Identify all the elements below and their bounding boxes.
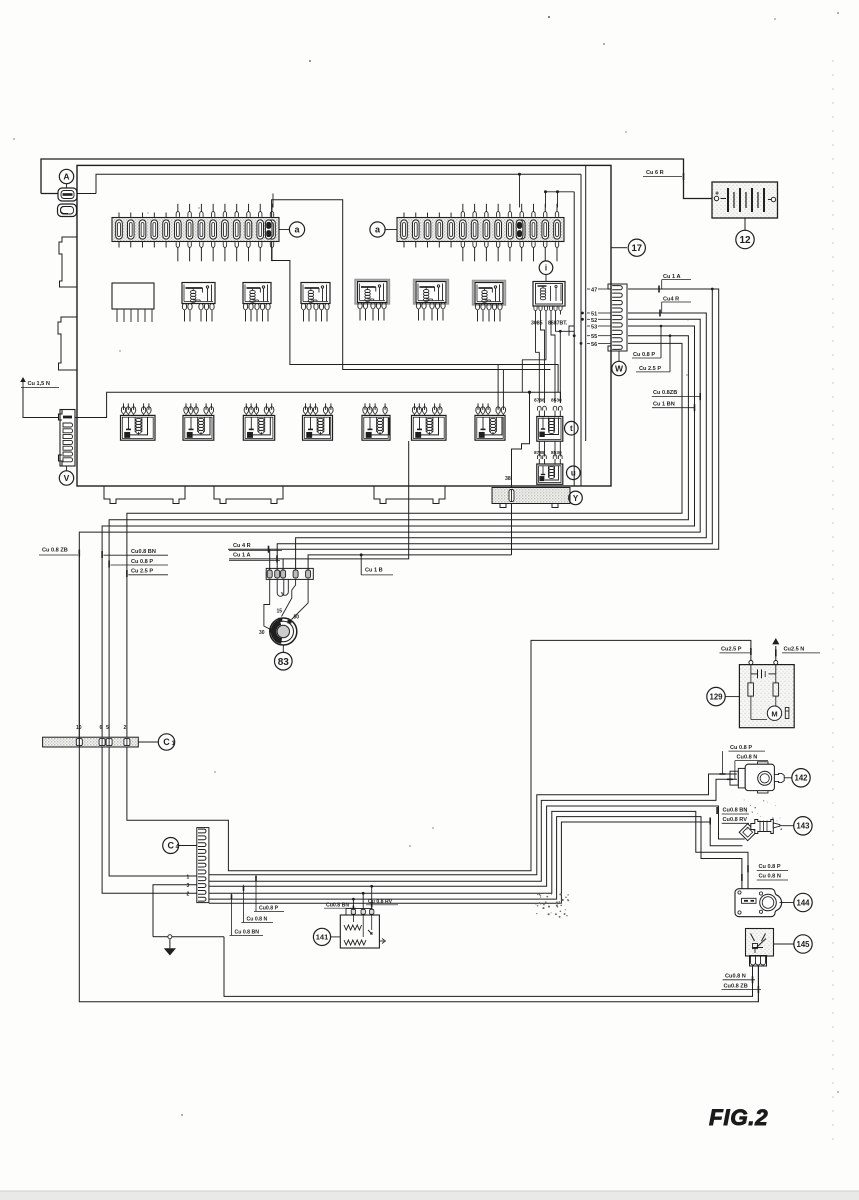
leader 142 [784, 777, 792, 779]
svg-text:50: 50 [294, 615, 300, 621]
svg-text:15: 15 [277, 609, 283, 615]
ref circle 17 [628, 239, 645, 256]
svg-text:38: 38 [505, 476, 511, 482]
svg-text:Cu 1 B: Cu 1 B [365, 568, 383, 574]
wire ground line to bottom bus [224, 937, 753, 997]
wire ZB left vertical to bottom bus [79, 555, 758, 1002]
relay i [533, 282, 565, 307]
inner vertical 586 [585, 165, 587, 441]
svg-text:t: t [570, 424, 573, 433]
wire dark fuse bottom loop [272, 241, 558, 392]
svg-text:Cu0.8 N: Cu0.8 N [737, 754, 758, 760]
relay t pins [538, 406, 542, 410]
component 144 (flasher unit) [735, 889, 782, 917]
relay c6 [412, 415, 447, 440]
svg-text:Cu0.8 BN: Cu0.8 BN [131, 549, 156, 555]
wires 145 down [752, 966, 754, 996]
wire outer corner to connector A [41, 193, 58, 195]
wire left strip pin up [272, 194, 274, 208]
relay c1 [121, 415, 156, 440]
component 141 (ballast resistor) [340, 909, 385, 949]
relay b1 [182, 283, 215, 304]
svg-text:8530: 8530 [551, 398, 562, 404]
box bottom tab 1 [104, 486, 185, 504]
svg-text:17: 17 [632, 243, 643, 254]
wires relay i to relay t [536, 315, 540, 404]
svg-text:W: W [615, 364, 624, 374]
relay b4 [355, 280, 389, 304]
ref circle Y [569, 491, 583, 505]
svg-text:30: 30 [259, 630, 265, 636]
svg-text:Cu0.8 N: Cu0.8 N [725, 974, 746, 980]
component 129 (wiper motor unit) [739, 661, 794, 728]
ref circle W [612, 361, 626, 375]
left edge connector bracket 1 [59, 237, 77, 287]
svg-text:5: 5 [106, 725, 109, 731]
wire pin 56 -> C1 pin 2 [127, 343, 682, 737]
wire C1-6 to C4 pin2 [102, 747, 197, 893]
svg-text:129: 129 [709, 692, 723, 701]
dark fuse left strip [265, 220, 272, 239]
svg-text:i: i [545, 264, 547, 273]
svg-text:2: 2 [124, 725, 127, 731]
svg-text:141: 141 [316, 933, 329, 942]
svg-text:C: C [163, 737, 170, 747]
leader 144 [780, 902, 795, 904]
wires relay c7 pins up to interior lines [497, 365, 499, 404]
connector A (dark) [58, 188, 77, 201]
component block (plain) [112, 283, 154, 309]
svg-text:6: 6 [100, 725, 103, 731]
relay b2 [243, 283, 271, 304]
svg-text:Cu 0.8ZB: Cu 0.8ZB [653, 390, 677, 396]
svg-text:Cu 1,5 N: Cu 1,5 N [28, 381, 50, 387]
label Cu0.8 P hanging [255, 875, 257, 912]
relay c5 [362, 415, 390, 440]
ref circle V [59, 471, 73, 485]
leader i [545, 275, 547, 282]
snake wire dark fuse to relay area [272, 200, 551, 370]
ref circle a (right strip) [370, 222, 385, 237]
wire dark fuse up to top line [519, 174, 521, 207]
svg-text:56: 56 [591, 342, 597, 348]
svg-text:143: 143 [796, 822, 810, 831]
label Cu 0.8 BN hanging [231, 893, 233, 935]
ref circle C1 [158, 734, 174, 750]
bundle wire C4-2 to 144 Cu 0.8 P [209, 811, 748, 893]
fuse unit box 17 outline [77, 165, 611, 486]
bundle wire C4-3 to 143 Cu0.8 BN [209, 806, 745, 886]
wire Cu 2.5 N with arrow [775, 646, 777, 661]
wire slot1 drop [269, 549, 271, 570]
bundle wire to 144 Cu 0.8 N [209, 817, 742, 900]
svg-text:12: 12 [739, 235, 751, 246]
ignition switch wiring below [264, 579, 271, 630]
svg-text:Cu2.5 N: Cu2.5 N [784, 647, 805, 653]
ref circle u [567, 466, 581, 480]
svg-text:52: 52 [591, 318, 597, 324]
wire pin 53 -> C1 pin 6 [102, 326, 694, 737]
relay t [537, 417, 563, 442]
bottom inner box top edge [75, 392, 561, 417]
ref circle t [565, 421, 579, 435]
svg-text:Cu 0.8 P: Cu 0.8 P [730, 745, 752, 751]
svg-text:Cu 1 BN: Cu 1 BN [653, 402, 675, 408]
svg-text:Cu 0.8 N: Cu 0.8 N [247, 917, 268, 923]
leader battery to ref 12 [744, 218, 746, 231]
ground node and symbol [168, 935, 172, 939]
ignition connector strip [266, 568, 313, 579]
svg-text:47: 47 [591, 288, 597, 294]
dark fuse right strip [516, 220, 523, 239]
wire Y38 to slot5 [308, 555, 511, 570]
relay i pins [534, 307, 537, 311]
svg-text:Y: Y [573, 494, 579, 503]
connector W comb [611, 284, 627, 351]
svg-text:C: C [167, 841, 174, 851]
wire pin 47 -> Cu 4 R bus [228, 289, 719, 549]
label Cu 1.5 N [20, 377, 26, 382]
svg-text:Cu 0.8 N: Cu 0.8 N [759, 874, 781, 880]
svg-text:Cu 0.8 RV: Cu 0.8 RV [368, 899, 393, 905]
ref circle a (left strip) [289, 222, 304, 237]
svg-text:+: + [715, 191, 719, 198]
svg-text:2: 2 [187, 892, 190, 898]
svg-text:Cu2.5 P: Cu2.5 P [721, 647, 742, 653]
relay c2 [183, 415, 214, 440]
ref circle i [539, 261, 553, 275]
svg-text:144: 144 [796, 898, 810, 907]
svg-text:Cu 4 R: Cu 4 R [233, 543, 251, 549]
wires t to u [538, 441, 540, 456]
svg-text:55: 55 [591, 334, 597, 340]
wire: fuse-unit top edge to battery positive [41, 159, 712, 199]
svg-text:V: V [64, 473, 70, 483]
leader strip a right [384, 229, 397, 231]
ref circle 83 [275, 652, 293, 670]
ref circle A [59, 169, 73, 183]
ref circle 12 [736, 230, 754, 248]
pin junctions inside [581, 312, 584, 315]
inner vertical bus right side [580, 174, 582, 486]
svg-text:FIG.2: FIG.2 [709, 1105, 768, 1130]
wire pin 55 -> C1 pin 5 [109, 336, 688, 737]
relay b5 [414, 280, 448, 304]
connector V comb [59, 410, 76, 467]
box bottom tab 2 [214, 486, 283, 504]
battery 12 [712, 182, 778, 218]
ignition switch 83 body [269, 618, 297, 645]
relay c7 [475, 415, 505, 440]
relay c4 [303, 415, 333, 440]
leader strip a left [279, 229, 290, 231]
ref circle 141 [313, 928, 330, 945]
label Cu 1 B [360, 553, 363, 556]
wire to connector V [23, 388, 59, 418]
svg-text:142: 142 [794, 774, 808, 783]
left edge connector bracket 2 [58, 317, 77, 370]
relay b6 [473, 281, 505, 305]
relay u [537, 464, 563, 484]
connector Y strip [492, 488, 570, 508]
svg-text:Cu 0.8 BN: Cu 0.8 BN [235, 930, 260, 936]
connector below A [58, 204, 77, 217]
svg-text:Cu0.8 ZB: Cu0.8 ZB [724, 983, 748, 989]
wire pin 51 -> slot4 [296, 313, 707, 570]
wire Cu 1 A to ignition slot3 [229, 441, 409, 559]
svg-text:53: 53 [591, 324, 597, 330]
component 142 (sensor/switch) [730, 762, 784, 793]
wire C1-2 to 129 via loop [127, 640, 751, 870]
svg-text:A: A [63, 172, 69, 182]
svg-text:3: 3 [187, 883, 190, 889]
leader 17 [611, 247, 627, 249]
inner top box line [96, 174, 581, 193]
bundle wire to 142 Cu0.8 N [209, 779, 737, 881]
wire connector A to inner box [77, 193, 96, 195]
svg-text:Cu 1 A: Cu 1 A [233, 552, 251, 558]
wire pin 52 -> C1 pin 10 [79, 319, 700, 737]
ref circle 129 [707, 687, 725, 705]
wire C1-5 to C4 pin1 [109, 747, 197, 876]
svg-text:51: 51 [591, 312, 597, 318]
svg-text:Cu 6 R: Cu 6 R [646, 170, 664, 176]
svg-text:Cu0.8 BN: Cu0.8 BN [723, 808, 748, 814]
leader C4 [179, 845, 197, 847]
wires right-strip fuses to 574 bus [546, 192, 575, 208]
svg-text:u: u [571, 469, 576, 478]
junction 7th vertical [277, 289, 712, 570]
bundle wire C4-1 to 142 Cu 0.8 P [209, 774, 737, 875]
svg-text:Cu 0.8 P: Cu 0.8 P [759, 864, 781, 870]
component 145 (switch) [746, 929, 774, 967]
wire 38 from junction through Y [512, 392, 530, 555]
svg-text:Cu0.8 RV: Cu0.8 RV [723, 817, 748, 823]
leader 141 [331, 936, 341, 938]
svg-text:145: 145 [796, 940, 810, 949]
svg-text:Cu0.8 P: Cu0.8 P [259, 906, 279, 912]
svg-text:Cu 1 A: Cu 1 A [663, 274, 681, 280]
leader V [66, 466, 68, 471]
leader 129 [726, 696, 740, 698]
wire C4 pin3 to ground [153, 885, 197, 937]
svg-text:Cu0.8 BN: Cu0.8 BN [326, 902, 349, 908]
relay b3 [301, 283, 330, 304]
fuse strip a (left) [112, 204, 279, 261]
svg-text:Cu 0.8 ZB: Cu 0.8 ZB [42, 548, 68, 554]
leader 83 [282, 645, 284, 652]
fuse strip a (right) [397, 204, 564, 261]
svg-text:83: 83 [278, 657, 290, 668]
bottom page strip [0, 1191, 859, 1200]
leader W [618, 351, 620, 361]
leader A [66, 184, 68, 188]
ref circle 142 [792, 769, 810, 787]
connector C1 strip [43, 737, 139, 747]
inner vertical 574 [573, 192, 575, 486]
ref circle C4 [163, 838, 179, 854]
relay c3 [243, 415, 274, 440]
svg-text:Cu 0.8 P: Cu 0.8 P [633, 352, 655, 358]
label Cu 0.8 N hanging [243, 885, 245, 923]
connector C4 comb [197, 828, 209, 903]
svg-text:Cu 0.8 P: Cu 0.8 P [131, 559, 153, 565]
leader 145 [774, 943, 795, 945]
ref circle 144 [794, 893, 812, 911]
wires down to 141 [352, 899, 354, 914]
ref circle 143 [794, 817, 812, 835]
svg-text:8786: 8786 [534, 398, 545, 404]
svg-text:Cu 2.5 P: Cu 2.5 P [639, 366, 661, 372]
bundle wire to 143 Cu0.8 RV [209, 822, 743, 903]
component 143 (injector/valve) [739, 820, 794, 841]
svg-text:Cu 2.5 P: Cu 2.5 P [131, 569, 153, 575]
box bottom tab 3 [374, 486, 445, 504]
paper dirt speckles [535, 800, 782, 918]
svg-text:1: 1 [187, 874, 190, 880]
svg-text:M: M [771, 709, 777, 718]
leader C1 [138, 741, 158, 743]
ref circle 145 [794, 935, 812, 953]
